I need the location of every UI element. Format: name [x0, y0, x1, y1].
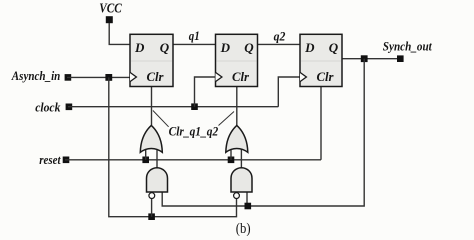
wire OR2 left input from reset: [230, 148, 232, 160]
wire clock riser to FF3: [278, 77, 300, 107]
wire clock riser to FF2: [195, 77, 216, 107]
svg-text:D: D: [134, 40, 145, 55]
svg-text:VCC: VCC: [99, 2, 122, 17]
node reset junction OR2: [228, 157, 235, 164]
node bottom-rail junction AND1: [148, 213, 155, 220]
wire VCC to FF1 D: [109, 23, 130, 44]
svg-text:Clr_q1_q2: Clr_q1_q2: [169, 125, 219, 139]
svg-text:clock: clock: [35, 99, 61, 114]
node feedback junction: [361, 55, 368, 62]
wire reset riser to FF3 Clr: [320, 87, 322, 160]
svg-text:Q: Q: [329, 40, 339, 55]
Synch_out terminal square: [397, 55, 404, 62]
node reset junction OR1: [142, 157, 149, 164]
svg-text:Synch_out: Synch_out: [383, 39, 432, 53]
wire leader left: [153, 111, 169, 127]
node Asynch_in junction: [105, 74, 112, 81]
and-gate G4: [231, 168, 252, 199]
wire FF2 Clr to OR2: [236, 87, 238, 126]
svg-text:q2: q2: [274, 29, 286, 43]
svg-text:Asynch_in: Asynch_in: [11, 69, 60, 83]
Asynch_in terminal square: [65, 74, 72, 81]
clock terminal square: [66, 104, 73, 111]
wire OR1 right input from AND1: [156, 148, 158, 168]
svg-text:Clr: Clr: [317, 69, 335, 84]
svg-text:Clr: Clr: [232, 69, 250, 84]
svg-text:Q: Q: [244, 40, 254, 55]
svg-text:q1: q1: [189, 29, 200, 43]
wire Asynch_in to FF1 clock: [67, 76, 130, 78]
wire feedback from Q3 to AND gates: [162, 59, 364, 206]
wire clock line: [68, 106, 278, 108]
svg-text:(b): (b): [236, 221, 251, 236]
node clock junction FF2: [191, 103, 198, 110]
or-gate G2: [226, 125, 248, 152]
svg-text:Q: Q: [160, 40, 170, 55]
wire q2: [258, 43, 301, 45]
wire OR1 left input from reset: [145, 148, 147, 160]
reset terminal square: [63, 157, 70, 164]
flip-flop U1: [130, 34, 173, 86]
svg-text:reset: reset: [39, 153, 61, 167]
flip-flop U3: [300, 34, 342, 86]
wire AND1 bubble drop: [151, 199, 153, 217]
wire Synch_out: [342, 58, 400, 60]
wire AND2 feedback input: [246, 192, 248, 206]
wire reset line: [65, 159, 321, 161]
svg-text:D: D: [304, 40, 315, 55]
wire OR2 right input from AND2: [240, 148, 242, 168]
wire FF1 Clr to OR1: [151, 87, 153, 126]
wire q1: [173, 43, 216, 45]
and-gate G3: [147, 168, 168, 199]
node feedback junction AND2: [245, 203, 252, 210]
wire Asynch_in riser to bottom rail: [109, 77, 237, 216]
wire leader right: [219, 112, 235, 126]
svg-text:D: D: [220, 40, 231, 55]
flip-flop U2: [216, 34, 258, 86]
or-gate G1: [140, 125, 162, 152]
svg-text:Clr: Clr: [147, 69, 165, 84]
VCC terminal square: [106, 16, 113, 23]
